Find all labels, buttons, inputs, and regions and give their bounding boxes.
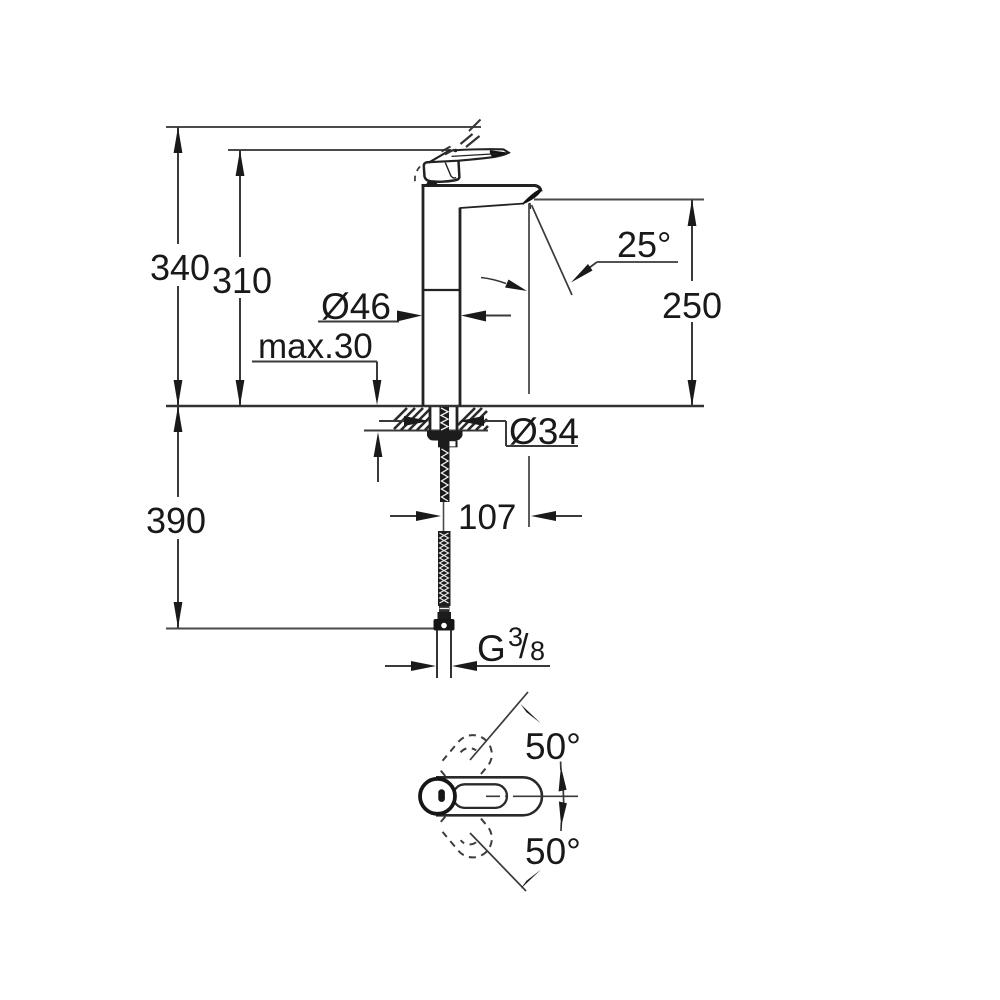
shank right line bbox=[456, 407, 459, 431]
handle pivot body bbox=[424, 161, 460, 182]
arrowhead 390 up bbox=[174, 406, 183, 432]
body joint line bbox=[423, 289, 460, 291]
svg-text:310: 310 bbox=[212, 260, 272, 301]
hose tube below bbox=[436, 630, 438, 678]
dia34 leader underline bbox=[506, 445, 578, 447]
curved leader arrow to stream bbox=[481, 278, 506, 284]
water vertical line lower bbox=[528, 456, 530, 527]
arrowhead 250 down bbox=[688, 380, 697, 406]
max.30 lower stem bbox=[377, 457, 379, 482]
hatch left bbox=[394, 408, 430, 430]
arrowhead 340 up bbox=[174, 127, 183, 153]
deck line bbox=[166, 405, 704, 407]
arrowhead G3/8 left bbox=[411, 661, 436, 671]
body left edge bbox=[422, 185, 425, 406]
underside line bbox=[364, 430, 488, 432]
svg-text:/: / bbox=[519, 628, 529, 666]
arrow at upper diagonal bbox=[521, 704, 542, 724]
arrowhead max.30 down bbox=[373, 380, 382, 405]
107 right tail bbox=[556, 515, 582, 517]
svg-text:25°: 25° bbox=[617, 224, 671, 265]
shank left line bbox=[429, 407, 432, 431]
inner pill bbox=[453, 784, 507, 808]
G3/8 left tail bbox=[385, 665, 412, 667]
pivot shadow triangle bbox=[426, 180, 439, 185]
arrowhead dia34 right bbox=[459, 416, 484, 426]
dia46 right tail bbox=[486, 315, 511, 317]
max.30 drop line bbox=[376, 362, 378, 384]
threaded rod lower bbox=[440, 447, 450, 502]
arrowhead G3/8 right bbox=[452, 661, 477, 671]
body top cap bbox=[422, 186, 542, 192]
svg-text:50°: 50° bbox=[525, 726, 581, 767]
hose collar bbox=[439, 606, 450, 612]
svg-text:max.30: max.30 bbox=[258, 327, 373, 366]
hub circle bbox=[420, 779, 455, 814]
handle blade bbox=[430, 149, 509, 162]
107 left tail bbox=[390, 515, 416, 517]
ext line 310 top bbox=[228, 149, 451, 151]
arrowhead dia46 left bbox=[397, 311, 422, 322]
max.30 leader underline bbox=[252, 361, 377, 363]
25deg slanted line bbox=[532, 205, 573, 295]
small dashes near blade left bbox=[442, 147, 451, 152]
dia34 left tail bbox=[379, 420, 405, 422]
body right edge bbox=[459, 208, 462, 407]
spout tip nib bbox=[528, 203, 531, 209]
blade inner highlight bbox=[452, 154, 499, 157]
arc middle stubs bbox=[560, 762, 562, 771]
raised handle tip tick bbox=[469, 120, 481, 132]
svg-text:340: 340 bbox=[150, 247, 210, 288]
arrow at lower diagonal bbox=[521, 870, 542, 890]
water vertical line upper bbox=[528, 204, 530, 394]
50deg upper diagonal bbox=[470, 692, 528, 760]
hub bar bbox=[438, 789, 445, 802]
lower ext line 390 bbox=[166, 628, 434, 630]
centerline bbox=[486, 795, 578, 797]
arrowhead 310 up bbox=[236, 150, 245, 176]
arc arrowhead down bbox=[559, 802, 567, 827]
arrowhead 250 up bbox=[688, 200, 697, 227]
svg-text:Ø34: Ø34 bbox=[509, 411, 579, 452]
ext line 340 top bbox=[166, 126, 481, 128]
hatch right bbox=[458, 408, 488, 430]
hose nut bbox=[434, 619, 455, 631]
arrowhead 107 right bbox=[531, 511, 556, 521]
svg-text:250: 250 bbox=[662, 285, 722, 326]
50deg lower diagonal bbox=[470, 833, 526, 891]
arc arrowhead up bbox=[559, 767, 567, 792]
dia34 right tail bbox=[484, 420, 506, 422]
handle pill outline bbox=[436, 777, 542, 815]
arrowhead 340 down bbox=[174, 380, 183, 406]
arrowhead 25deg leader bbox=[571, 264, 593, 283]
dashed rotated handle upper bbox=[412, 727, 500, 822]
threaded rod upper bbox=[440, 407, 450, 431]
flex hose braided bbox=[438, 531, 451, 606]
dia46 leader underline bbox=[318, 321, 399, 323]
ext line 250 top bbox=[534, 199, 704, 201]
svg-text:G: G bbox=[477, 628, 506, 669]
spout underside bbox=[460, 204, 524, 209]
G3/8 right tail bbox=[477, 665, 550, 667]
svg-text:50°: 50° bbox=[525, 831, 581, 872]
arrowhead dia34 left bbox=[404, 416, 429, 426]
svg-text:107: 107 bbox=[458, 498, 516, 537]
dashed rotated handle lower bbox=[412, 771, 500, 866]
25deg leader bbox=[597, 261, 678, 263]
spout beak (filled) bbox=[523, 190, 542, 204]
svg-text:8: 8 bbox=[530, 636, 545, 666]
blade dark tip bbox=[490, 150, 509, 157]
dashed arc lower-left of handle bbox=[415, 167, 420, 187]
svg-text:390: 390 bbox=[146, 500, 206, 541]
arrowhead max.30 up bbox=[374, 432, 383, 457]
lock nut bbox=[438, 441, 458, 448]
pivot inner line bbox=[445, 163, 456, 178]
arrowhead 390 down bbox=[174, 602, 183, 628]
arrowhead dia46 right bbox=[461, 311, 486, 322]
arrowhead 310 down bbox=[236, 380, 245, 406]
washer bbox=[427, 431, 463, 441]
raised handle dashes bbox=[461, 134, 473, 144]
rod centerline gap bbox=[443, 502, 445, 532]
arrowhead 107 left bbox=[416, 511, 441, 521]
dia34 leader elbow bbox=[505, 421, 507, 446]
